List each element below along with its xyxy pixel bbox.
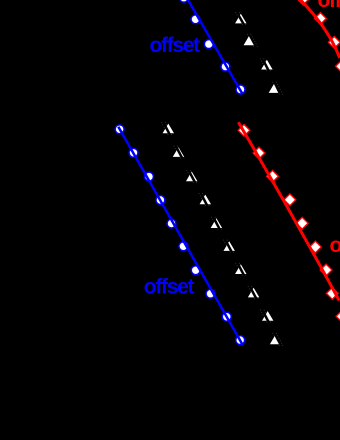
top red diamond series markers: [297, 0, 340, 72]
main blue fit line: [118, 127, 243, 346]
faint antialias fringes of black line (main group): [161, 122, 283, 346]
svg-text:offset: offset: [150, 34, 201, 57]
svg-text:offset: offset: [318, 0, 340, 12]
top triangle series markers (open triangles, white fill): [234, 13, 281, 94]
main red diamond series markers: [238, 124, 340, 322]
top red fit curve: [297, 0, 340, 58]
main triangle series black fit line (invisible on black, cuts markers): [164, 124, 283, 350]
top blue circle series markers: [179, 0, 245, 94]
svg-text:offset: offset: [330, 234, 340, 257]
top triangle series black fit line (invisible on black, cuts markers): [230, 0, 283, 100]
main red fit curve: [238, 122, 339, 300]
main blue circle series markers: [115, 125, 245, 345]
top blue fit line: [186, 0, 243, 94]
faint antialias fringes of black line (top group): [236, 12, 284, 95]
svg-text:offset: offset: [144, 276, 195, 299]
main triangle series markers (open triangles, white fill): [162, 123, 283, 345]
